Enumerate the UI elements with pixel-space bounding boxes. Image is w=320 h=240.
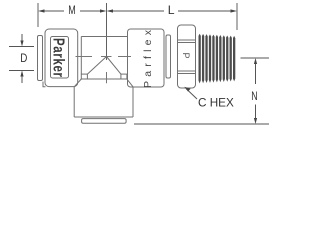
N dimension line upper: [255, 62, 257, 84]
hex nut: [178, 25, 196, 88]
dimension D top line: [9, 46, 34, 48]
dimension D bottom line: [9, 70, 34, 72]
arrow D top: [21, 34, 23, 44]
collar section: [128, 29, 165, 87]
nut chamfer lines top: [178, 39, 196, 41]
nut chamfer lines bottom: [178, 70, 196, 72]
bottom plate: [82, 119, 127, 124]
lower hex box chamfer right: [127, 79, 133, 87]
crimp shell outer: [45, 29, 78, 87]
C HEX leader line: [186, 89, 197, 100]
thread band (male NPT): [199, 34, 236, 84]
lower hex box chamfer left: [74, 79, 81, 87]
center tick main (below dim ext): [106, 72, 108, 83]
arrowhead L right: [231, 9, 238, 12]
N extension line top: [241, 57, 270, 59]
cone diagonal right: [107, 57, 121, 75]
lower hex box left edge: [73, 87, 75, 117]
dimension M extension line left: [37, 3, 39, 27]
N dimension line lower: [255, 105, 257, 121]
body chamfer square left: [81, 74, 87, 79]
body left edge: [80, 37, 82, 75]
centerline horizontal dashes: [76, 56, 132, 58]
svg-text:Parflex: Parflex: [142, 29, 154, 88]
cone diagonal left: [87, 57, 106, 75]
dimension line M: [41, 10, 103, 12]
washer between collar and nut: [166, 35, 171, 78]
svg-text:P: P: [181, 53, 191, 59]
lower hex box bottom edge: [74, 116, 133, 118]
C HEX leader arrowhead: [184, 87, 190, 92]
dimension line L: [110, 10, 234, 12]
body chamfer square right: [121, 74, 127, 79]
arrowhead M left: [38, 9, 45, 12]
svg-text:D: D: [20, 51, 27, 65]
Parker label box: [51, 37, 69, 79]
dimension shared extension line M/L: [106, 3, 108, 60]
arrow D bottom: [21, 73, 23, 83]
body bottom edge: [81, 78, 127, 80]
svg-text:L: L: [168, 3, 175, 17]
arrowhead L left: [107, 9, 114, 12]
hose end corner: [43, 82, 46, 87]
svg-text:Parker: Parker: [50, 38, 67, 78]
svg-text:M: M: [68, 3, 76, 17]
fitting body top edge: [81, 36, 127, 38]
svg-text:N: N: [251, 89, 257, 103]
dimension L extension line right: [236, 3, 238, 30]
arrowhead M right: [100, 9, 107, 12]
lower hex box right edge: [132, 87, 134, 117]
svg-text:C HEX: C HEX: [198, 96, 234, 110]
N baseline bottom: [134, 123, 269, 125]
hose ferrule thin washer: [38, 36, 43, 81]
